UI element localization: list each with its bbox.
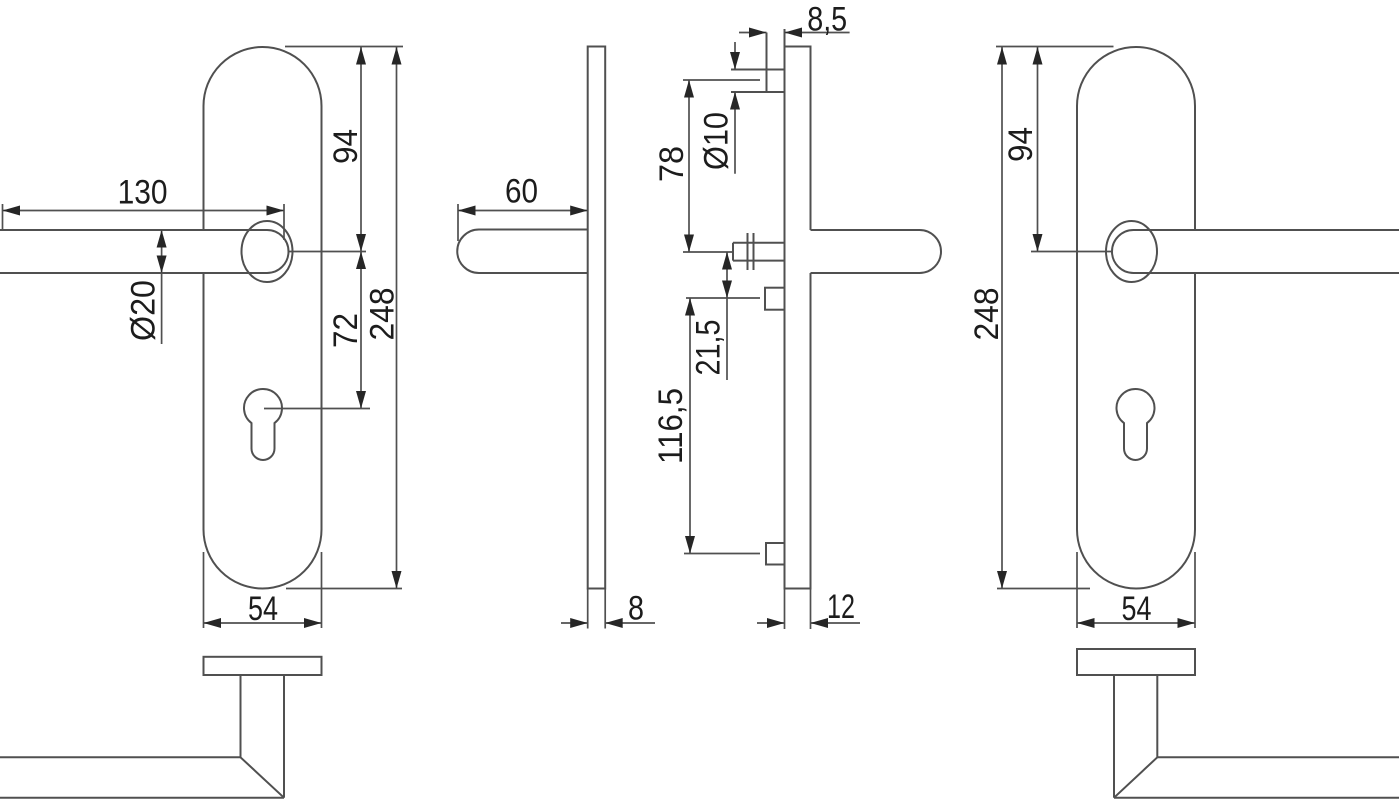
lever side view	[457, 230, 587, 274]
rose ellipse left	[242, 221, 293, 282]
dim 94-72 line	[264, 47, 403, 409]
svg-text:12: 12	[827, 588, 855, 626]
plate outline right	[1077, 47, 1195, 589]
svg-text:8,5: 8,5	[807, 1, 847, 39]
dim 116,5	[684, 298, 760, 554]
plate end rect right	[1077, 649, 1195, 675]
svg-text:116,5: 116,5	[652, 388, 690, 464]
lever right of section	[811, 230, 942, 273]
dim 78	[683, 80, 760, 252]
handle grip bar left	[0, 757, 284, 797]
svg-text:Ø10: Ø10	[698, 112, 736, 170]
dim d10	[734, 42, 736, 174]
plate side strip	[588, 47, 606, 589]
svg-text:94: 94	[327, 129, 365, 164]
dim 94 right	[1031, 47, 1113, 252]
top fixing screw	[731, 33, 785, 93]
plate end rect	[204, 657, 322, 675]
handle grip bar right	[1114, 757, 1399, 797]
dim 54 left	[204, 552, 322, 628]
svg-text:78: 78	[653, 146, 691, 182]
svg-text:8: 8	[628, 590, 644, 628]
svg-text:94: 94	[1002, 127, 1040, 162]
dim d20 line	[161, 230, 163, 344]
bottom fixing screw	[766, 543, 785, 565]
lever bar left	[0, 230, 289, 273]
rose ellipse right	[1106, 221, 1157, 282]
svg-text:60: 60	[505, 173, 538, 211]
svg-text:130: 130	[118, 174, 168, 212]
svg-text:Ø20: Ø20	[125, 280, 163, 341]
dim 54 right	[1077, 552, 1195, 628]
dim 8	[561, 589, 655, 629]
dim 21,5	[686, 252, 760, 380]
dim 12	[757, 589, 860, 630]
svg-text:54: 54	[1122, 590, 1152, 628]
dim 8,5	[739, 32, 850, 34]
cylinder housing	[765, 288, 785, 310]
dim 248 right	[996, 47, 1114, 589]
plate outline left	[204, 47, 322, 589]
handle neck left	[241, 675, 285, 798]
keyhole left	[244, 389, 282, 460]
dim 130 line	[3, 204, 285, 240]
svg-text:54: 54	[248, 590, 278, 628]
spindle	[733, 233, 785, 270]
dim 60	[458, 204, 588, 241]
svg-text:248: 248	[364, 288, 402, 341]
svg-text:248: 248	[968, 288, 1006, 341]
svg-text:21,5: 21,5	[690, 320, 728, 376]
handle neck right	[1114, 675, 1157, 798]
dim 248 line left	[286, 47, 402, 589]
lever bar right	[1112, 230, 1399, 273]
plate section	[785, 29, 811, 589]
svg-text:72: 72	[327, 313, 365, 348]
keyhole right	[1116, 389, 1154, 460]
